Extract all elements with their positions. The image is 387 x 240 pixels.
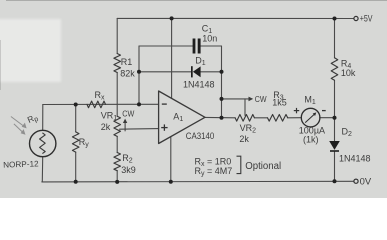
wire VR2 to R3 bbox=[254, 117, 267, 119]
VR1 CW arrow bbox=[123, 119, 127, 132]
wire D1 left lead bbox=[139, 71, 192, 73]
light arrow 1 bbox=[11, 117, 27, 135]
svg-text:CW: CW bbox=[255, 95, 267, 104]
node 0V D2 bbox=[333, 179, 337, 183]
note bracket bbox=[237, 156, 241, 173]
wire VR2 wiper L bbox=[222, 98, 249, 100]
meter plus sign bbox=[294, 108, 299, 113]
svg-text:Ry = 4M7: Ry = 4M7 bbox=[195, 166, 233, 178]
svg-text:10k: 10k bbox=[341, 68, 356, 78]
wire D2 bottom lead bbox=[334, 152, 336, 182]
wire op-amp V+ supply bbox=[171, 18, 173, 98]
svg-text:3k9: 3k9 bbox=[121, 165, 136, 175]
wire Rp bottom lead bbox=[41, 157, 43, 182]
wire main input node horizontal bbox=[43, 103, 159, 105]
svg-text:0V: 0V bbox=[360, 177, 372, 188]
terminal 0V bbox=[354, 179, 358, 183]
svg-text:CA3140: CA3140 bbox=[186, 131, 215, 141]
wire C1 right lead bbox=[201, 45, 222, 47]
node feedback right wiper bbox=[220, 97, 224, 101]
potentiometer VR2 bbox=[235, 115, 254, 122]
node 0V R2 bbox=[115, 180, 119, 184]
wire R1 bottom lead bbox=[116, 73, 118, 105]
node 0V op-amp V- bbox=[169, 180, 173, 184]
wire op-amp output bbox=[205, 116, 235, 118]
wire R4 bottom lead bbox=[334, 80, 336, 117]
scan left edge line bbox=[0, 40, 1, 90]
wire Rp top lead bbox=[42, 105, 44, 131]
meter M1 bbox=[301, 108, 320, 127]
node input wire feedback bbox=[137, 102, 141, 106]
node feedback right D1 bbox=[220, 70, 224, 74]
terminal +5V bbox=[354, 16, 358, 20]
resistor R4 bbox=[331, 58, 338, 81]
wire D2 top lead bbox=[334, 118, 336, 141]
wire R4 top lead bbox=[334, 19, 336, 58]
photoresistor Rp circle bbox=[30, 130, 56, 156]
wire C1 left lead bbox=[139, 45, 193, 47]
op-amp plus sign bbox=[161, 124, 167, 130]
svg-text:2k: 2k bbox=[239, 134, 249, 144]
resistor Rx bbox=[87, 101, 106, 108]
resistor R2 bbox=[114, 153, 121, 171]
scan white patch bbox=[0, 19, 61, 82]
meter M1 needle bbox=[305, 112, 316, 122]
node 0V Ry bbox=[74, 180, 78, 184]
wire VR1 top lead bbox=[116, 104, 118, 116]
photoresistor Rp element bbox=[40, 133, 46, 154]
node output bbox=[220, 116, 224, 120]
node top rail op-amp V+ bbox=[170, 16, 174, 20]
svg-text:2k: 2k bbox=[101, 122, 111, 132]
svg-text:R2: R2 bbox=[122, 153, 133, 165]
wire R2 bottom lead bbox=[116, 171, 118, 182]
svg-text:D1: D1 bbox=[195, 56, 206, 68]
VR2 CW arrow head bbox=[249, 97, 254, 102]
meter minus sign bbox=[322, 110, 326, 112]
wire Ry bottom lead bbox=[75, 152, 77, 182]
node input wire Ry bbox=[74, 103, 78, 107]
capacitor C1 plates bbox=[193, 39, 201, 54]
svg-text:R1: R1 bbox=[121, 57, 133, 67]
svg-text:Rp: Rp bbox=[26, 112, 40, 127]
resistor R1 bbox=[114, 54, 121, 73]
node meter R4 D2 bbox=[333, 116, 337, 120]
resistor Ry bbox=[72, 132, 79, 152]
potentiometer VR1 bbox=[114, 116, 121, 136]
resistor R3 bbox=[268, 115, 288, 122]
wire +5V rail bbox=[117, 17, 354, 19]
light arrow 2 bbox=[14, 124, 23, 133]
svg-text:CW: CW bbox=[122, 110, 134, 119]
diode D1 bbox=[191, 66, 201, 77]
svg-text:VR1: VR1 bbox=[101, 111, 118, 123]
svg-text:1N4148: 1N4148 bbox=[183, 80, 215, 90]
wire R3 to meter bbox=[288, 117, 302, 119]
svg-text:NORP-12: NORP-12 bbox=[3, 159, 39, 169]
wire VR1 to R2 lead bbox=[116, 136, 118, 152]
svg-text:1k5: 1k5 bbox=[272, 98, 287, 108]
svg-text:82k: 82k bbox=[120, 69, 135, 79]
svg-text:10n: 10n bbox=[202, 33, 217, 43]
svg-text:Ry: Ry bbox=[79, 137, 90, 149]
diode D2 bbox=[329, 141, 340, 152]
wire op-amp V- supply bbox=[170, 137, 172, 182]
wire VR2 wiper drop bbox=[244, 99, 246, 116]
svg-text:D2: D2 bbox=[342, 127, 353, 139]
wire feedback left vertical bbox=[138, 46, 140, 104]
wire 0V rail bbox=[42, 180, 354, 183]
node top rail R4 bbox=[333, 17, 337, 21]
op-amp A1 triangle bbox=[159, 91, 205, 144]
svg-text:M1: M1 bbox=[304, 94, 316, 106]
wire meter to rail junction bbox=[320, 117, 335, 119]
wire R1 top lead from +5V corner bbox=[116, 18, 118, 53]
svg-text:Optional: Optional bbox=[245, 161, 281, 172]
wire VR1 wiper to op-amp plus input bbox=[120, 128, 159, 131]
node feedback left D1 bbox=[137, 70, 141, 74]
op-amp minus sign bbox=[162, 103, 167, 105]
wire feedback right vertical bbox=[221, 46, 223, 118]
svg-text:Rx: Rx bbox=[95, 90, 106, 102]
scan top edge line bbox=[6, 0, 387, 1]
svg-text:A1: A1 bbox=[173, 112, 183, 124]
svg-text:1N4148: 1N4148 bbox=[339, 154, 371, 164]
svg-text:VR2: VR2 bbox=[240, 123, 257, 135]
svg-text:+5V: +5V bbox=[360, 13, 373, 24]
wire Ry top lead bbox=[75, 105, 77, 132]
wire D1 right lead bbox=[201, 71, 222, 73]
svg-text:(1k): (1k) bbox=[303, 135, 319, 145]
